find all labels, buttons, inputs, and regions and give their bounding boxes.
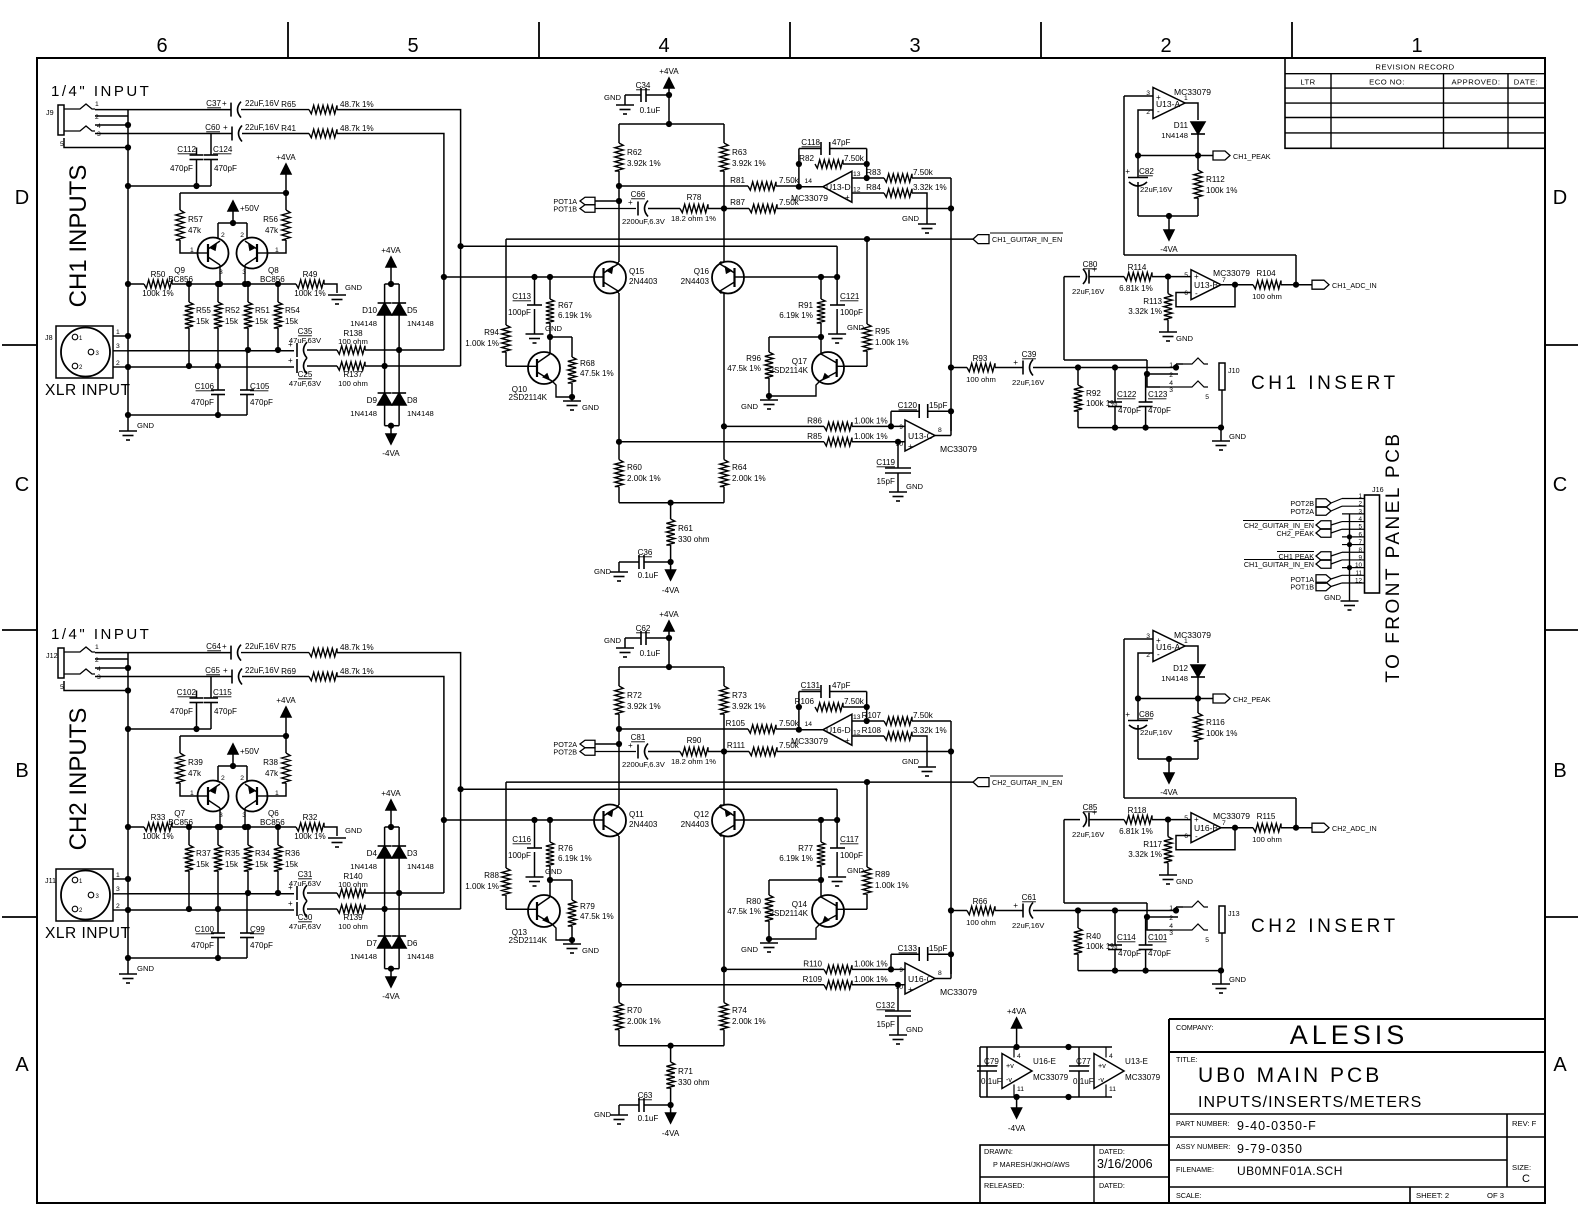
svg-text:ALESIS: ALESIS bbox=[1290, 1020, 1409, 1050]
resistor R77 6.19k bbox=[820, 820, 822, 842]
wire bbox=[619, 502, 724, 504]
op-amp U16-A MC33079 bbox=[1153, 631, 1185, 662]
svg-text:6: 6 bbox=[156, 35, 167, 57]
svg-text:MC33079: MC33079 bbox=[1174, 630, 1211, 640]
svg-text:1: 1 bbox=[190, 790, 194, 797]
svg-text:Q7: Q7 bbox=[174, 809, 185, 818]
svg-text:U13-E: U13-E bbox=[1125, 1057, 1149, 1066]
svg-text:R72: R72 bbox=[627, 691, 642, 700]
svg-text:P MARESH/JKHO/AWS: P MARESH/JKHO/AWS bbox=[993, 1160, 1070, 1169]
svg-text:U16-D: U16-D bbox=[826, 725, 851, 735]
svg-text:2: 2 bbox=[1160, 35, 1171, 57]
svg-text:1N4148: 1N4148 bbox=[407, 862, 434, 871]
svg-text:GND: GND bbox=[1176, 877, 1193, 886]
svg-text:3/16/2006: 3/16/2006 bbox=[1097, 1157, 1153, 1171]
svg-text:XLR INPUT: XLR INPUT bbox=[45, 382, 130, 399]
svg-text:GND: GND bbox=[545, 324, 562, 333]
ground bbox=[768, 396, 770, 400]
svg-text:0.1uF: 0.1uF bbox=[1073, 1077, 1094, 1086]
wire bbox=[95, 109, 231, 111]
svg-text:7: 7 bbox=[1222, 277, 1226, 284]
svg-text:2N4403: 2N4403 bbox=[629, 277, 658, 286]
svg-text:470pF: 470pF bbox=[1148, 949, 1171, 958]
svg-text:R73: R73 bbox=[732, 691, 747, 700]
svg-text:+: + bbox=[288, 883, 293, 892]
svg-text:J16: J16 bbox=[1372, 485, 1384, 494]
svg-text:100k 1%: 100k 1% bbox=[1206, 729, 1238, 738]
wire bbox=[799, 729, 823, 731]
wire bbox=[950, 178, 952, 431]
svg-text:15k: 15k bbox=[285, 860, 299, 869]
svg-text:1N4148: 1N4148 bbox=[1161, 131, 1188, 140]
resistor R94 1.00k bbox=[502, 325, 510, 352]
svg-text:R115: R115 bbox=[1257, 812, 1276, 821]
net flag CH2_ADC_IN bbox=[1312, 823, 1329, 832]
svg-text:MC33079: MC33079 bbox=[1125, 1073, 1161, 1082]
svg-text:+: + bbox=[628, 198, 633, 207]
svg-text:22uF,16V: 22uF,16V bbox=[245, 666, 280, 675]
svg-text:C82: C82 bbox=[1139, 167, 1154, 176]
svg-text:6.81k 1%: 6.81k 1% bbox=[1119, 827, 1153, 836]
svg-text:2N4403: 2N4403 bbox=[629, 820, 658, 829]
diode D3 1N4148 bbox=[392, 846, 406, 858]
svg-text:0.1uF: 0.1uF bbox=[640, 649, 661, 658]
net flag CH1_GUITAR_IN_EN bbox=[506, 238, 973, 240]
power +50V bbox=[228, 744, 238, 754]
svg-text:GND: GND bbox=[582, 946, 599, 955]
svg-text:100 ohm: 100 ohm bbox=[338, 379, 368, 388]
wire bbox=[852, 177, 884, 179]
ground bbox=[889, 491, 907, 493]
svg-text:22uF,16V: 22uF,16V bbox=[1072, 287, 1105, 296]
svg-text:2: 2 bbox=[221, 232, 225, 239]
resistor R117 3.32k bbox=[1167, 820, 1169, 837]
svg-text:REVISION RECORD: REVISION RECORD bbox=[1375, 63, 1454, 72]
svg-text:6.19k 1%: 6.19k 1% bbox=[558, 854, 592, 863]
svg-text:GND: GND bbox=[345, 826, 362, 835]
svg-text:14: 14 bbox=[804, 178, 812, 185]
svg-text:1.00k 1%: 1.00k 1% bbox=[854, 432, 888, 441]
svg-text:Q15: Q15 bbox=[629, 267, 645, 276]
svg-text:+50V: +50V bbox=[240, 747, 260, 756]
wire bbox=[1176, 828, 1235, 850]
svg-text:2.00k 1%: 2.00k 1% bbox=[732, 1017, 766, 1026]
svg-text:C36: C36 bbox=[638, 548, 653, 557]
svg-text:R139: R139 bbox=[343, 913, 363, 922]
svg-text:GND: GND bbox=[906, 482, 923, 491]
svg-text:ASSY NUMBER:: ASSY NUMBER: bbox=[1176, 1142, 1230, 1151]
svg-text:A: A bbox=[15, 1054, 29, 1076]
svg-text:15k: 15k bbox=[196, 860, 210, 869]
wire bbox=[935, 435, 951, 437]
svg-text:R33: R33 bbox=[151, 813, 166, 822]
ground bbox=[1159, 331, 1177, 333]
svg-text:3.32k 1%: 3.32k 1% bbox=[1128, 307, 1162, 316]
svg-text:D6: D6 bbox=[407, 939, 418, 948]
svg-text:470pF: 470pF bbox=[191, 398, 214, 407]
svg-text:R107: R107 bbox=[862, 711, 882, 720]
wire bbox=[1176, 285, 1235, 307]
wire bbox=[461, 788, 837, 790]
svg-text:GND: GND bbox=[1176, 334, 1193, 343]
transistor Q8 BC856 bbox=[237, 238, 268, 269]
power -4VA bbox=[1016, 1097, 1018, 1108]
svg-text:TO FRONT PANEL PCB: TO FRONT PANEL PCB bbox=[1383, 431, 1404, 682]
power -4VA bbox=[390, 426, 392, 434]
svg-text:48.7k 1%: 48.7k 1% bbox=[340, 124, 374, 133]
resistor R62 3.92k bbox=[618, 124, 620, 143]
svg-text:R79: R79 bbox=[580, 902, 595, 911]
wire bbox=[1138, 758, 1198, 760]
svg-text:+: + bbox=[1092, 808, 1097, 817]
svg-text:22uF,16V: 22uF,16V bbox=[1012, 921, 1045, 930]
svg-text:GND: GND bbox=[345, 283, 362, 292]
svg-text:1N4148: 1N4148 bbox=[407, 409, 434, 418]
wire bbox=[769, 879, 821, 881]
svg-text:1N4148: 1N4148 bbox=[407, 319, 434, 328]
svg-text:XLR INPUT: XLR INPUT bbox=[45, 925, 130, 942]
svg-text:1.00k 1%: 1.00k 1% bbox=[854, 417, 888, 426]
resistor R95 1.00k bbox=[863, 324, 871, 351]
svg-text:3: 3 bbox=[97, 674, 101, 681]
resistor R67 6.19k bbox=[549, 277, 551, 299]
svg-text:6.81k 1%: 6.81k 1% bbox=[1119, 284, 1153, 293]
wire bbox=[180, 735, 286, 737]
svg-text:3: 3 bbox=[97, 131, 101, 138]
svg-text:J11: J11 bbox=[45, 876, 56, 885]
svg-text:7.50k: 7.50k bbox=[913, 168, 934, 177]
svg-text:1.00k 1%: 1.00k 1% bbox=[875, 338, 909, 347]
svg-text:15pF: 15pF bbox=[929, 944, 948, 953]
svg-text:100k 1%: 100k 1% bbox=[294, 832, 326, 841]
svg-text:CH1 INSERT: CH1 INSERT bbox=[1251, 373, 1399, 394]
svg-text:DRAWN:: DRAWN: bbox=[984, 1147, 1013, 1156]
svg-text:R77: R77 bbox=[798, 844, 813, 853]
svg-text:100 ohm: 100 ohm bbox=[966, 918, 996, 927]
svg-text:7.50k: 7.50k bbox=[844, 154, 865, 163]
svg-text:B: B bbox=[1553, 760, 1566, 782]
svg-text:R116: R116 bbox=[1206, 718, 1225, 727]
svg-text:1.00k 1%: 1.00k 1% bbox=[875, 881, 909, 890]
svg-text:-v: -v bbox=[1098, 1075, 1104, 1084]
svg-text:15pF: 15pF bbox=[929, 401, 948, 410]
svg-text:BC856: BC856 bbox=[260, 818, 285, 827]
svg-text:MC33079: MC33079 bbox=[940, 987, 977, 997]
svg-text:2200uF,6.3V: 2200uF,6.3V bbox=[622, 760, 666, 769]
svg-text:470pF: 470pF bbox=[1118, 949, 1141, 958]
resistor R105 7.50k bbox=[619, 728, 748, 730]
svg-text:470pF: 470pF bbox=[214, 707, 237, 716]
ground bbox=[526, 333, 544, 335]
svg-text:100 ohm: 100 ohm bbox=[1252, 835, 1282, 844]
op-amp U16-C MC33079 bbox=[905, 963, 935, 994]
svg-text:+: + bbox=[628, 741, 633, 750]
svg-text:5: 5 bbox=[1184, 272, 1188, 279]
wire bbox=[385, 425, 400, 427]
svg-text:-4VA: -4VA bbox=[662, 586, 680, 595]
svg-text:C114: C114 bbox=[1117, 933, 1136, 942]
svg-text:R34: R34 bbox=[255, 849, 270, 858]
svg-text:2.00k 1%: 2.00k 1% bbox=[627, 474, 661, 483]
svg-text:3: 3 bbox=[909, 35, 920, 57]
svg-text:470pF: 470pF bbox=[250, 398, 273, 407]
resistor R89 1.00k bbox=[863, 867, 871, 894]
svg-text:47k: 47k bbox=[265, 769, 279, 778]
resistor R139 100 ohm bbox=[337, 905, 365, 913]
ground bbox=[1220, 971, 1222, 984]
svg-text:R87: R87 bbox=[730, 198, 745, 207]
svg-text:+: + bbox=[1013, 358, 1018, 367]
svg-text:CH1 INPUTS: CH1 INPUTS bbox=[65, 165, 92, 308]
svg-text:100 ohm: 100 ohm bbox=[338, 922, 368, 931]
svg-text:+: + bbox=[223, 666, 228, 675]
svg-text:3.92k 1%: 3.92k 1% bbox=[627, 159, 661, 168]
svg-text:5: 5 bbox=[1184, 815, 1188, 822]
svg-text:2: 2 bbox=[240, 775, 244, 782]
svg-text:47.5k 1%: 47.5k 1% bbox=[727, 907, 761, 916]
ground bbox=[828, 876, 846, 878]
svg-text:R40: R40 bbox=[1086, 932, 1101, 941]
wire bbox=[128, 185, 211, 187]
svg-text:2SD2114K: 2SD2114K bbox=[769, 909, 808, 918]
wire bbox=[1078, 970, 1221, 972]
svg-text:C37: C37 bbox=[206, 99, 221, 108]
wire bbox=[444, 276, 604, 278]
svg-text:7.50k: 7.50k bbox=[844, 697, 865, 706]
svg-text:22uF,16V: 22uF,16V bbox=[245, 642, 280, 651]
svg-text:U16-E: U16-E bbox=[1033, 1057, 1057, 1066]
op-amp U13-B MC33079 bbox=[1191, 270, 1221, 300]
resistor R64 2.00k bbox=[720, 460, 728, 487]
svg-text:1.00k 1%: 1.00k 1% bbox=[854, 975, 888, 984]
power -4VA bbox=[1168, 759, 1170, 773]
svg-text:LTR: LTR bbox=[1300, 78, 1315, 87]
op-amp U13-A MC33079 bbox=[1153, 88, 1185, 119]
svg-text:R104: R104 bbox=[1256, 269, 1276, 278]
svg-text:100k 1%: 100k 1% bbox=[1206, 186, 1238, 195]
resistor R137 100 ohm bbox=[337, 362, 365, 370]
resistor R73 3.92k bbox=[723, 667, 725, 686]
diode D6 1N4148 bbox=[398, 893, 400, 936]
svg-text:R89: R89 bbox=[875, 870, 890, 879]
svg-text:DATED:: DATED: bbox=[1099, 1181, 1125, 1190]
resistor R49 100k bbox=[296, 280, 324, 288]
svg-text:CH2 INPUTS: CH2 INPUTS bbox=[65, 708, 92, 851]
wire bbox=[619, 666, 724, 668]
svg-text:22uF,16V: 22uF,16V bbox=[245, 99, 280, 108]
wire bbox=[444, 819, 604, 821]
svg-text:R51: R51 bbox=[255, 306, 270, 315]
svg-text:R118: R118 bbox=[1128, 806, 1147, 815]
resistor R96 47.5k bbox=[765, 352, 773, 378]
svg-text:-: - bbox=[1195, 832, 1198, 841]
svg-text:15k: 15k bbox=[196, 317, 210, 326]
svg-text:R69: R69 bbox=[281, 667, 296, 676]
svg-text:+4VA: +4VA bbox=[276, 153, 296, 162]
wire bbox=[128, 728, 211, 730]
svg-text:100 ohm: 100 ohm bbox=[338, 337, 368, 346]
svg-text:C: C bbox=[15, 474, 29, 496]
svg-text:1: 1 bbox=[1169, 905, 1173, 912]
svg-text:-: - bbox=[1157, 650, 1160, 659]
svg-text:48.7k 1%: 48.7k 1% bbox=[340, 643, 374, 652]
svg-text:R80: R80 bbox=[746, 897, 761, 906]
wire bbox=[1063, 820, 1065, 903]
svg-text:+: + bbox=[1092, 265, 1097, 274]
svg-text:47uF,63V: 47uF,63V bbox=[289, 922, 322, 931]
svg-text:C65: C65 bbox=[205, 666, 220, 675]
diode D5 1N4148 bbox=[392, 303, 406, 315]
svg-text:SHEET: 2: SHEET: 2 bbox=[1416, 1191, 1449, 1200]
svg-text:+: + bbox=[1156, 93, 1161, 102]
svg-text:R60: R60 bbox=[627, 463, 642, 472]
ground bbox=[526, 876, 544, 878]
svg-text:1: 1 bbox=[1411, 35, 1422, 57]
svg-text:100pF: 100pF bbox=[840, 308, 863, 317]
svg-text:C62: C62 bbox=[636, 624, 651, 633]
svg-text:100pF: 100pF bbox=[840, 851, 863, 860]
svg-text:3.32k 1%: 3.32k 1% bbox=[913, 726, 947, 735]
resistor R86 1.00k bbox=[724, 425, 824, 427]
svg-text:C64: C64 bbox=[206, 642, 221, 651]
op-amp U16-E MC33079 (power) bbox=[1002, 1054, 1032, 1089]
svg-text:POT2B: POT2B bbox=[553, 748, 577, 757]
svg-text:47k: 47k bbox=[188, 226, 202, 235]
wire bbox=[618, 836, 620, 1003]
svg-text:R88: R88 bbox=[484, 871, 499, 880]
svg-text:3.32k 1%: 3.32k 1% bbox=[1128, 850, 1162, 859]
svg-text:1: 1 bbox=[1169, 362, 1173, 369]
svg-text:REV: F: REV: F bbox=[1512, 1119, 1537, 1128]
wire bbox=[1078, 427, 1221, 429]
resistor R79 47.5k bbox=[568, 900, 576, 926]
op-amp U16-D MC33079 bbox=[823, 714, 852, 745]
wire bbox=[95, 652, 231, 654]
svg-text:+: + bbox=[908, 985, 913, 994]
svg-text:3.32k 1%: 3.32k 1% bbox=[913, 183, 947, 192]
resistor R40 100k bbox=[1077, 911, 1079, 929]
svg-text:2: 2 bbox=[116, 903, 120, 910]
transistor Q16 2N4403 bbox=[712, 262, 744, 294]
wire bbox=[337, 110, 461, 366]
svg-text:GND: GND bbox=[741, 402, 758, 411]
svg-text:R35: R35 bbox=[225, 849, 240, 858]
svg-text:Q16: Q16 bbox=[694, 267, 710, 276]
svg-text:C122: C122 bbox=[1117, 390, 1137, 399]
svg-text:1: 1 bbox=[95, 644, 99, 651]
svg-text:-4VA: -4VA bbox=[1160, 788, 1178, 797]
svg-text:DATE:: DATE: bbox=[1514, 78, 1538, 87]
ground bbox=[768, 939, 770, 943]
svg-text:0.1uF: 0.1uF bbox=[640, 106, 661, 115]
resistor R80 47.5k bbox=[765, 895, 773, 921]
svg-text:GND: GND bbox=[545, 867, 562, 876]
wire bbox=[935, 978, 951, 980]
svg-text:4: 4 bbox=[97, 123, 101, 130]
svg-text:22uF,16V: 22uF,16V bbox=[1012, 378, 1045, 387]
svg-text:1N4148: 1N4148 bbox=[350, 319, 377, 328]
svg-text:2: 2 bbox=[1169, 372, 1173, 379]
svg-text:100pF: 100pF bbox=[508, 308, 531, 317]
svg-text:+4VA: +4VA bbox=[381, 246, 401, 255]
svg-text:+: + bbox=[222, 642, 227, 651]
svg-text:9: 9 bbox=[899, 967, 903, 974]
ground bbox=[1220, 428, 1222, 441]
svg-text:R36: R36 bbox=[285, 849, 300, 858]
resistor R85 1.00k bbox=[619, 441, 824, 443]
svg-text:4: 4 bbox=[97, 666, 101, 673]
svg-text:1: 1 bbox=[190, 247, 194, 254]
svg-text:100k 1%: 100k 1% bbox=[294, 289, 326, 298]
svg-text:R68: R68 bbox=[580, 359, 595, 368]
resistor R93 100 ohm bbox=[951, 367, 967, 369]
svg-text:J12: J12 bbox=[46, 651, 58, 660]
svg-text:3: 3 bbox=[1169, 387, 1173, 394]
transistor Q13 2SD2114K bbox=[528, 895, 560, 927]
transistor Q6 BC856 bbox=[237, 781, 268, 812]
transistor Q17 2SD2114K bbox=[812, 352, 844, 384]
svg-text:TITLE:: TITLE: bbox=[1176, 1055, 1198, 1064]
svg-text:CH2_ADC_IN: CH2_ADC_IN bbox=[1332, 824, 1377, 833]
svg-text:47.5k 1%: 47.5k 1% bbox=[580, 912, 614, 921]
svg-text:+: + bbox=[1194, 815, 1199, 824]
svg-text:2: 2 bbox=[240, 232, 244, 239]
svg-text:SCALE:: SCALE: bbox=[1176, 1191, 1202, 1200]
svg-text:330 ohm: 330 ohm bbox=[678, 1078, 710, 1087]
power -4VA bbox=[1168, 216, 1170, 230]
svg-text:+4VA: +4VA bbox=[659, 610, 679, 619]
svg-text:2200uF,6.3V: 2200uF,6.3V bbox=[622, 217, 666, 226]
svg-text:Q11: Q11 bbox=[629, 810, 644, 819]
ground bus wire bbox=[127, 653, 129, 958]
svg-text:INPUTS/INSERTS/METERS: INPUTS/INSERTS/METERS bbox=[1198, 1094, 1422, 1111]
svg-text:C118: C118 bbox=[801, 138, 820, 147]
svg-text:D: D bbox=[15, 187, 29, 209]
resistor R70 2.00k bbox=[615, 1003, 623, 1030]
resistor R88 1.00k bbox=[502, 868, 510, 895]
svg-text:100 ohm: 100 ohm bbox=[1252, 292, 1282, 301]
resistor R60 2.00k bbox=[615, 460, 623, 487]
svg-text:D5: D5 bbox=[407, 306, 418, 315]
svg-text:ECO NO:: ECO NO: bbox=[1369, 78, 1405, 87]
svg-text:+4VA: +4VA bbox=[276, 696, 296, 705]
svg-text:CH1_GUITAR_IN_EN: CH1_GUITAR_IN_EN bbox=[1244, 560, 1314, 569]
resistor R109 1.00k bbox=[619, 984, 824, 986]
net flag CH1_PEAK bbox=[1213, 151, 1230, 160]
wire bbox=[769, 336, 821, 338]
svg-text:C117: C117 bbox=[840, 835, 859, 844]
svg-text:470pF: 470pF bbox=[250, 941, 273, 950]
svg-text:D12: D12 bbox=[1173, 664, 1188, 673]
svg-text:0.1uF: 0.1uF bbox=[638, 1114, 659, 1123]
svg-text:15k: 15k bbox=[225, 860, 239, 869]
svg-text:C121: C121 bbox=[840, 292, 860, 301]
resistor R51 15k bbox=[247, 284, 249, 302]
capacitor C132 15pF bbox=[897, 985, 899, 1011]
svg-text:100k 1%: 100k 1% bbox=[142, 289, 174, 298]
svg-text:GND: GND bbox=[902, 214, 919, 223]
svg-text:470pF: 470pF bbox=[170, 707, 193, 716]
power -4VA bbox=[670, 1105, 672, 1113]
svg-text:2: 2 bbox=[95, 114, 99, 121]
wire bbox=[180, 192, 286, 194]
svg-text:3.92k 1%: 3.92k 1% bbox=[732, 159, 766, 168]
svg-text:CH2_PEAK: CH2_PEAK bbox=[1233, 695, 1271, 704]
capacitor C120 15pF bbox=[890, 411, 892, 426]
wire bbox=[1124, 95, 1153, 97]
svg-text:Q8: Q8 bbox=[268, 266, 279, 275]
svg-text:CH2 INSERT: CH2 INSERT bbox=[1251, 916, 1399, 937]
